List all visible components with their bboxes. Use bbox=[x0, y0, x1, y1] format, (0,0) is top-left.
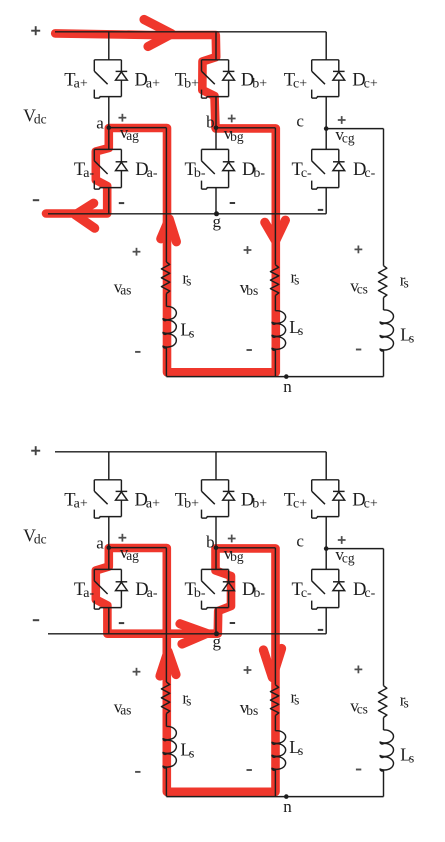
wire Ta+ to node a bbox=[108, 517, 110, 548]
wire red arrow down on load b bbox=[263, 649, 281, 678]
transistor Tb+ bbox=[202, 480, 229, 518]
wire Tb+ to node b bbox=[215, 97, 217, 128]
label - of vcg bbox=[318, 209, 323, 211]
wire red arrow left on - rail bbox=[75, 203, 94, 228]
node g bbox=[214, 211, 219, 216]
node c bbox=[324, 546, 329, 551]
node a bbox=[107, 125, 112, 130]
resistor r_s phase b bbox=[270, 265, 278, 296]
node b bbox=[214, 126, 219, 131]
wire Tc- to -rail bbox=[325, 608, 327, 634]
wire Tb- to -rail bbox=[215, 188, 217, 214]
diode Da- bbox=[116, 149, 128, 187]
node DC + terminal bbox=[31, 30, 40, 32]
wire load c top lead bbox=[383, 129, 385, 266]
wire node c to Tc- bbox=[325, 549, 327, 570]
svg-text:a: a bbox=[96, 533, 104, 552]
wire red arrow right toward g bbox=[180, 624, 207, 644]
label - of vcs bbox=[356, 349, 361, 351]
diode Da+ bbox=[116, 60, 128, 97]
wire node a to load a bbox=[109, 127, 167, 129]
svg-text:b: b bbox=[206, 112, 215, 131]
wire load b top lead bbox=[274, 128, 276, 265]
inductor L_s phase c bbox=[380, 310, 393, 351]
wire r_s to L_s phase a bbox=[165, 714, 167, 727]
wire red conduction path loop (T_b+ to load b to load a to T_a-) bbox=[46, 33, 276, 372]
resistor r_s phase c bbox=[379, 686, 387, 718]
wire node a to Ta- bbox=[108, 548, 110, 570]
diode Db- bbox=[223, 149, 235, 187]
transistor Ta+ bbox=[94, 60, 121, 98]
inductor L_s phase c bbox=[380, 730, 393, 771]
svg-text:g: g bbox=[213, 632, 222, 651]
node n bbox=[284, 794, 289, 799]
transistor Ta- bbox=[94, 569, 121, 609]
label + of vbg bbox=[228, 538, 236, 540]
wire load a bottom lead bbox=[165, 768, 167, 797]
wire node c to load c bbox=[326, 128, 383, 130]
inductor L_s phase a bbox=[163, 726, 176, 768]
resistor r_s phase c bbox=[379, 266, 387, 298]
wire Ta- to -rail bbox=[108, 188, 110, 214]
wire Tc+ to node c bbox=[325, 97, 327, 129]
transistor Tc- bbox=[312, 149, 339, 189]
wire load b bottom lead bbox=[274, 770, 276, 797]
svg-text:c: c bbox=[296, 532, 304, 551]
wire node b to Tb- bbox=[215, 548, 217, 570]
label + of vcs bbox=[355, 248, 363, 250]
svg-text:a: a bbox=[96, 113, 104, 132]
wire node a to Ta- bbox=[108, 128, 110, 150]
wire - DC bus rail bbox=[48, 213, 326, 215]
label - of vbg bbox=[230, 622, 235, 624]
wire node b to Tb- bbox=[215, 128, 217, 150]
wire +rail to Tb+ bbox=[215, 452, 217, 480]
inductor L_s phase a bbox=[163, 306, 176, 348]
resistor r_s phase a bbox=[161, 262, 169, 294]
wire node b to load b bbox=[216, 547, 275, 549]
wire Ta+ to node a bbox=[108, 97, 110, 128]
wire Tc+ to node c bbox=[325, 517, 327, 549]
transistor Tc- bbox=[312, 569, 339, 609]
transistor Tb+ bbox=[202, 60, 229, 98]
wire node c to Tc- bbox=[325, 129, 327, 150]
label + of vag bbox=[119, 537, 127, 539]
wire +rail to Ta+ bbox=[108, 452, 110, 480]
wire load b top lead bbox=[274, 548, 276, 685]
wire neutral rail bbox=[166, 376, 383, 378]
label + of vbs bbox=[244, 249, 252, 251]
label - of vas bbox=[135, 351, 140, 353]
label - of vas bbox=[135, 771, 140, 773]
diode Db- bbox=[223, 569, 235, 607]
circuit 1: active state current path bbox=[23, 20, 414, 397]
label - of vag bbox=[119, 202, 124, 204]
svg-text:n: n bbox=[283, 797, 292, 816]
circuit 2: freewheel state current path bbox=[23, 446, 414, 816]
label + of vag bbox=[119, 117, 127, 119]
wire r_s to L_s phase c bbox=[383, 718, 385, 731]
resistor r_s phase b bbox=[270, 685, 278, 716]
diode Dc- bbox=[333, 149, 345, 187]
wire red arrow up on load a bbox=[160, 652, 176, 677]
wire neutral rail bbox=[166, 796, 383, 798]
wire +rail to Tc+ bbox=[325, 32, 327, 60]
label + of vbg bbox=[228, 118, 236, 120]
transistor Ta+ bbox=[94, 480, 121, 518]
wire load b bottom lead bbox=[274, 350, 276, 377]
wire red arrow right on + rail bbox=[144, 20, 172, 47]
transistor Tb- bbox=[202, 149, 229, 189]
inductor L_s phase b bbox=[272, 731, 286, 771]
label + of vas bbox=[133, 251, 141, 253]
wire +rail to Tc+ bbox=[325, 452, 327, 480]
wire load a bottom lead bbox=[165, 348, 167, 377]
label + of vcg bbox=[338, 539, 346, 541]
node n bbox=[284, 374, 289, 379]
inductor L_s phase b bbox=[272, 311, 286, 351]
diode Dc+ bbox=[333, 480, 345, 517]
node c bbox=[324, 126, 329, 131]
svg-text:n: n bbox=[283, 377, 292, 396]
label - of vcg bbox=[318, 629, 323, 631]
label - of vbs bbox=[247, 769, 252, 771]
node a bbox=[107, 545, 112, 550]
wire + DC bus rail bbox=[55, 31, 326, 33]
wire r_s to L_s phase c bbox=[383, 298, 385, 311]
wire load a top lead bbox=[165, 128, 167, 262]
transistor Tb- bbox=[202, 569, 229, 609]
resistor r_s phase a bbox=[161, 682, 169, 714]
svg-text:c: c bbox=[296, 112, 304, 131]
wire red arrow up on load a bbox=[161, 219, 177, 242]
transistor Ta- bbox=[94, 149, 121, 189]
wire Tc- to -rail bbox=[325, 188, 327, 214]
label - of vbg bbox=[230, 202, 235, 204]
label - of vbs bbox=[247, 349, 252, 351]
diode Da- bbox=[116, 569, 128, 607]
diode Db+ bbox=[223, 60, 235, 97]
transistor Tc+ bbox=[312, 480, 339, 518]
wire load c top lead bbox=[383, 549, 385, 686]
wire red freewheel loop (T_a- to g to D_b- to load b to load a) bbox=[96, 548, 276, 792]
node DC - terminal bbox=[33, 619, 39, 621]
wire load c bottom lead bbox=[383, 351, 385, 377]
wire + DC bus rail bbox=[55, 451, 326, 453]
diode Dc- bbox=[333, 569, 345, 607]
label + of vcs bbox=[355, 668, 363, 670]
wire node c to load c bbox=[326, 548, 383, 550]
svg-text:b: b bbox=[206, 532, 215, 551]
wire load a top lead bbox=[165, 548, 167, 682]
label + of vcg bbox=[338, 119, 346, 121]
diode Db+ bbox=[223, 480, 235, 517]
wire node a to load a bbox=[109, 547, 167, 549]
node DC - terminal bbox=[33, 199, 39, 201]
wire Tb+ to node b bbox=[215, 517, 217, 548]
diode Da+ bbox=[116, 480, 128, 517]
wire Ta- to -rail bbox=[108, 608, 110, 634]
wire Tb- to -rail bbox=[215, 608, 217, 634]
wire - DC bus rail bbox=[48, 633, 326, 635]
node b bbox=[214, 546, 219, 551]
wire r_s to L_s phase b bbox=[274, 295, 276, 310]
wire load c bottom lead bbox=[383, 771, 385, 797]
label - of vag bbox=[119, 622, 124, 624]
label + of vas bbox=[133, 671, 141, 673]
wire node b to load b bbox=[216, 127, 275, 129]
label + of vbs bbox=[244, 669, 252, 671]
svg-text:g: g bbox=[213, 212, 222, 231]
wire red arrow down on load b bbox=[265, 220, 286, 241]
wire +rail to Tb+ bbox=[215, 32, 217, 60]
wire r_s to L_s phase a bbox=[165, 294, 167, 307]
node DC + terminal bbox=[31, 450, 40, 452]
wire +rail to Ta+ bbox=[108, 32, 110, 60]
wire r_s to L_s phase b bbox=[274, 715, 276, 730]
node g bbox=[214, 631, 219, 636]
label - of vcs bbox=[356, 769, 361, 771]
diode Dc+ bbox=[333, 60, 345, 97]
transistor Tc+ bbox=[312, 60, 339, 98]
